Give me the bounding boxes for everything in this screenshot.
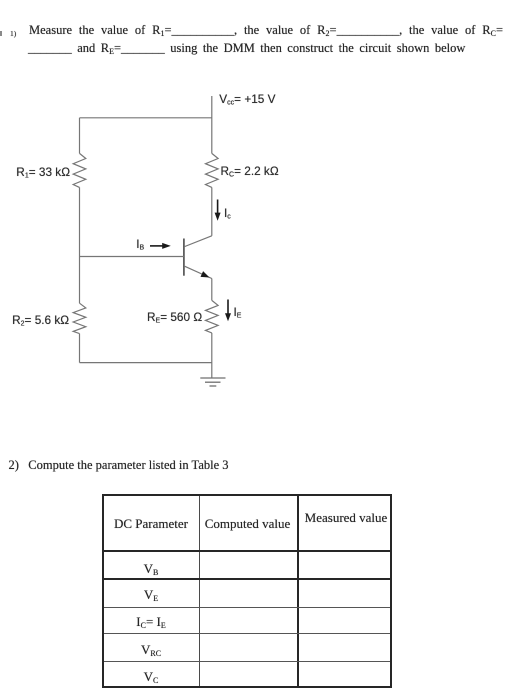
wire: RC bottom to collector bend <box>211 187 213 235</box>
row line under IC=IE <box>104 633 390 634</box>
current arrow IE <box>225 300 231 322</box>
wire: bottom horizontal rail <box>80 362 212 364</box>
label Vcc value <box>219 94 275 106</box>
paragraph line 1 <box>29 23 503 38</box>
table 3 <box>102 494 392 688</box>
label IB <box>136 239 144 251</box>
current arrow IC <box>215 200 221 221</box>
label R2 value <box>12 315 69 327</box>
wire: left branch middle (R1 to R2) through base node <box>79 187 81 303</box>
header: DC Parameter <box>104 516 198 532</box>
item number 2) and heading <box>9 458 229 473</box>
label R1 value <box>16 167 70 179</box>
resistor RC <box>206 153 219 187</box>
wire: base wire from divider to base bar <box>80 256 184 258</box>
label IC <box>224 208 231 220</box>
resistor R1 <box>73 153 86 187</box>
label IE <box>234 307 242 319</box>
row line under VRC <box>104 661 390 662</box>
row line under VE <box>104 607 390 608</box>
wire: top horizontal rail <box>80 117 212 119</box>
wire: RE to ground stub through bottom rail junction <box>211 333 213 378</box>
paragraph line 2 <box>28 41 465 56</box>
resistor R2 <box>73 303 86 333</box>
label RE value <box>147 312 202 324</box>
row label IC=IE <box>104 614 198 630</box>
row label VC <box>104 669 198 685</box>
current arrow IB <box>150 243 171 249</box>
header bottom line <box>104 550 390 552</box>
scan edge artifact <box>0 31 2 36</box>
wire: Vcc stub down to top rail junction <box>211 96 213 153</box>
row label VE <box>104 587 198 603</box>
item number 1) <box>10 29 16 38</box>
label RC value <box>221 166 279 178</box>
wire: emitter down to RE <box>211 279 213 301</box>
header: Measured value <box>298 510 394 526</box>
transistor Q1 emitter arrowhead <box>201 271 210 277</box>
vertical divider col1/col2 <box>199 496 200 686</box>
row line under VB <box>104 578 390 580</box>
ground <box>200 378 225 386</box>
transistor Q1 emitter lead <box>185 266 212 278</box>
transistor Q1 collector lead <box>185 236 212 247</box>
resistor RE <box>206 300 219 333</box>
wire: left branch top (rail to R1) <box>79 118 81 154</box>
row label VRC <box>104 642 198 658</box>
vertical divider col2/col3 <box>297 496 299 686</box>
transistor Q1 base bar <box>183 239 185 276</box>
header: Computed value <box>199 516 296 532</box>
wire: left branch bottom (R2 to bottom rail) <box>79 334 81 363</box>
row label VB <box>104 561 198 577</box>
